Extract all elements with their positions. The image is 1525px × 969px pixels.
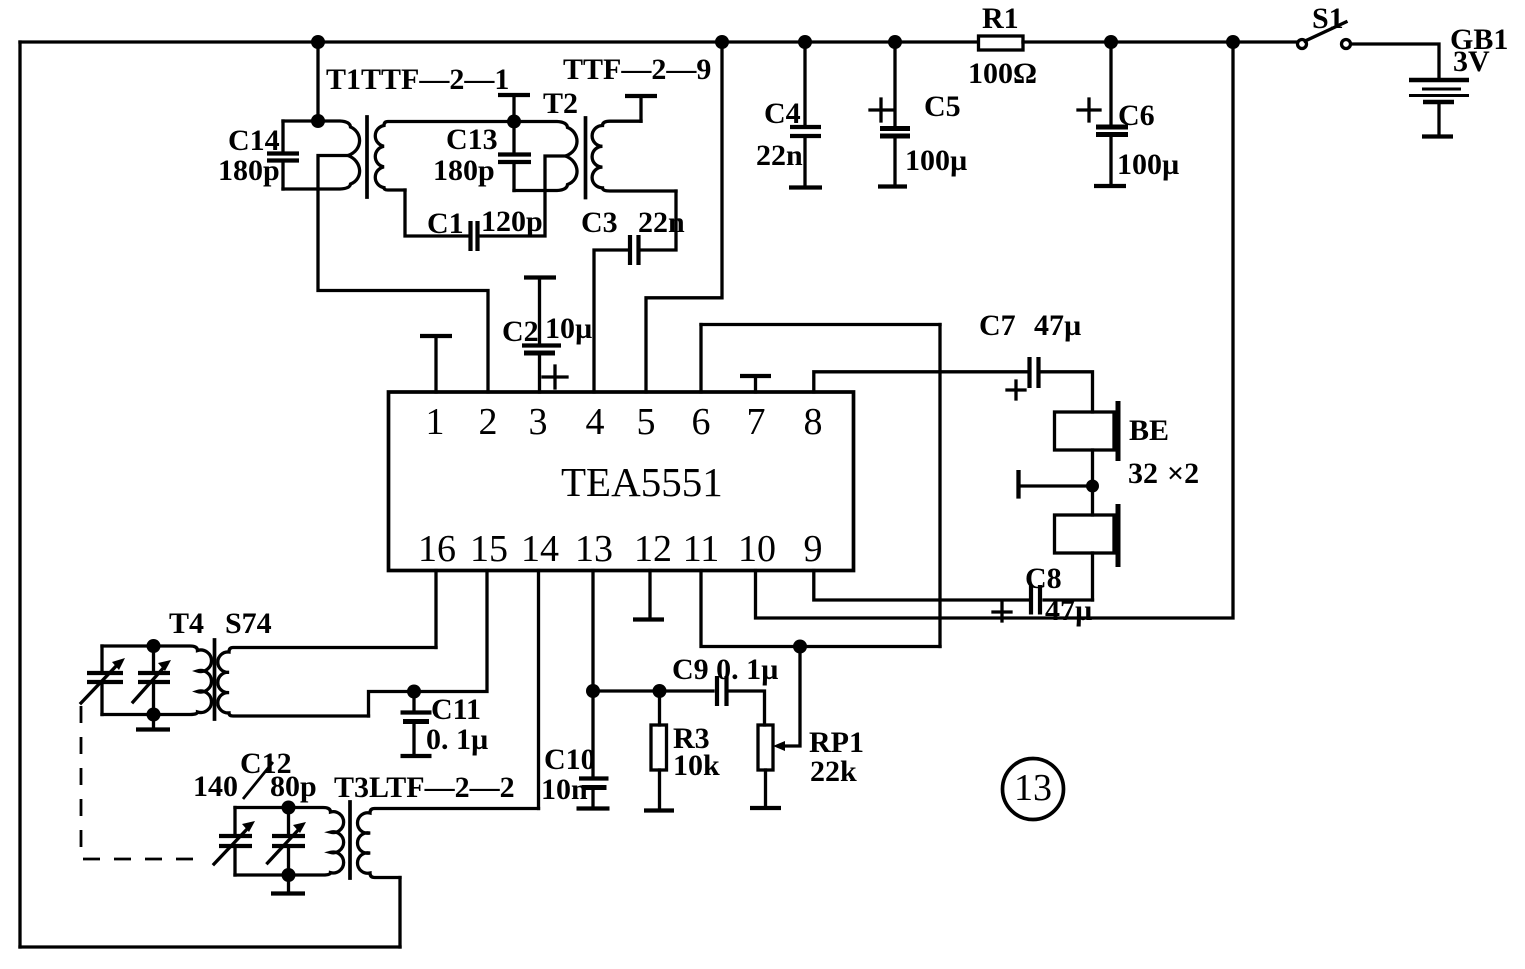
wire C9 right to RP1: [730, 691, 765, 725]
transformer T1 core: [365, 117, 369, 197]
svg-text:4: 4: [586, 401, 605, 443]
wire C9 row: [593, 689, 713, 692]
transformer T2 primary left edge upper: [512, 122, 515, 152]
svg-text:180p: 180p: [433, 154, 495, 187]
TOP RIGHT SECTION: [756, 22, 1470, 618]
capacitor C13 plates: [498, 152, 531, 156]
ground T4: [152, 715, 155, 729]
capacitor C9 plates: [715, 676, 719, 706]
node junction T1 secondary / T2 primary top: [507, 115, 521, 129]
pin 8 wire to C7: [814, 372, 1026, 392]
svg-text:16: 16: [418, 528, 456, 570]
svg-text:T2: T2: [543, 87, 578, 120]
svg-text:C8: C8: [1025, 562, 1062, 595]
wire C7 to earphone: [1042, 372, 1093, 412]
wire C8 right: [1044, 598, 1093, 601]
node junction T4 top: [147, 639, 161, 653]
svg-text:C10: C10: [544, 743, 596, 776]
wire pin14 down to T3: [537, 571, 540, 809]
wire dashed gang link: [81, 706, 207, 859]
node junction rail / C4: [798, 35, 812, 49]
resistor R3: [658, 691, 661, 725]
svg-text:C2: C2: [502, 315, 539, 348]
svg-text:80p: 80p: [270, 770, 317, 803]
wire top supply rail right of R1: [1023, 40, 1297, 43]
svg-text:180p: 180p: [218, 154, 280, 187]
wire top supply rail left segment: [20, 40, 978, 43]
svg-text:C11: C11: [431, 693, 481, 726]
pin 6 to feedback box: [699, 325, 702, 393]
wire rail to pin5: [646, 42, 722, 392]
transformer T4 core: [213, 640, 217, 719]
svg-text:C4: C4: [764, 97, 801, 130]
svg-text:S74: S74: [225, 607, 272, 640]
svg-text:22n: 22n: [756, 139, 803, 172]
svg-text:32: 32: [1128, 457, 1158, 490]
capacitor C14 plates: [267, 151, 299, 155]
transformer T2 primary left edge lower: [512, 165, 515, 191]
svg-text:2: 2: [479, 401, 498, 443]
wire feedback box top: [701, 323, 940, 326]
terminal bar above T1/T2 junction: [512, 95, 515, 122]
svg-text:C5: C5: [924, 90, 961, 123]
capacitor C2 plates: [522, 343, 561, 347]
wire T1 primary tap: [318, 156, 488, 393]
svg-text:9: 9: [804, 528, 823, 570]
svg-text:S1: S1: [1312, 2, 1344, 35]
capacitor C6 electrolytic: [1109, 42, 1112, 124]
svg-text:1: 1: [426, 401, 445, 443]
svg-text:22k: 22k: [810, 755, 857, 788]
IC SECTION: [389, 325, 1119, 811]
svg-text:47µ: 47µ: [1045, 594, 1092, 627]
potentiometer RP1: [758, 725, 773, 770]
wire battery return vertical: [756, 42, 1234, 618]
svg-text:TEA5551: TEA5551: [561, 459, 723, 505]
svg-text:100µ: 100µ: [905, 144, 967, 177]
polarity plus C8: [993, 603, 1011, 621]
svg-text:14: 14: [521, 528, 559, 570]
svg-text:T4: T4: [169, 607, 204, 640]
wire earphone middle tap to terminal: [1019, 484, 1093, 487]
wire feedback box bottom pin 11: [701, 571, 940, 647]
capacitor C5 electrolytic: [893, 42, 896, 125]
node junction C11 top: [407, 685, 421, 699]
svg-text:TTF—2—9: TTF—2—9: [563, 53, 711, 86]
svg-text:11: 11: [683, 528, 720, 570]
svg-text:22n: 22n: [638, 206, 685, 239]
BOTTOM LEFT SECTION: [81, 571, 539, 894]
ground T3: [287, 875, 290, 892]
svg-text:140: 140: [193, 770, 238, 803]
transformer T1 secondary winding: [375, 122, 514, 191]
svg-text:13: 13: [1014, 767, 1052, 809]
node junction T3 top: [282, 801, 296, 815]
wire feedback box right: [938, 325, 941, 647]
capacitor C11: [412, 692, 415, 712]
svg-text:C14: C14: [228, 124, 280, 157]
terminal bar above T2 secondary: [639, 96, 642, 121]
transformer T3 secondary winding and top edge: [357, 809, 538, 878]
svg-text:×2: ×2: [1167, 457, 1199, 490]
svg-text:10k: 10k: [673, 749, 720, 782]
svg-text:8: 8: [804, 401, 823, 443]
transformer T1 primary left edge lower: [281, 164, 284, 189]
node junction rail / C5: [888, 35, 902, 49]
transformer T4 primary winding: [102, 646, 211, 715]
figure number circle 13: [1003, 759, 1064, 820]
svg-text:15: 15: [470, 528, 508, 570]
transformer T4 secondary winding and top edge: [218, 648, 436, 717]
potentiometer RP1 wiper arrow: [779, 647, 800, 746]
svg-text:C1: C1: [427, 207, 464, 240]
svg-text:C6: C6: [1118, 99, 1155, 132]
capacitor C8 plates: [1029, 585, 1033, 615]
svg-text:12: 12: [634, 528, 672, 570]
wire bottom frame horizontal: [20, 945, 400, 948]
pin 1 terminal: [434, 337, 437, 392]
wire pin16 down: [434, 571, 437, 648]
transformer T1 primary winding: [283, 121, 360, 189]
svg-text:0. 1µ: 0. 1µ: [426, 723, 488, 756]
wire C3 left to pin4: [594, 250, 627, 392]
transformer T3 primary winding: [235, 808, 344, 876]
node junction pin13 / C10 / C9: [586, 684, 600, 698]
svg-text:10µ: 10µ: [545, 312, 592, 345]
resistor R1: [979, 36, 1024, 50]
transformer T1 primary left edge upper: [281, 121, 284, 150]
polarity plus C6: [1078, 99, 1100, 121]
transformer T3 core: [348, 802, 352, 878]
node junction T4 bottom: [147, 708, 161, 722]
variable capacitor C12a on T4 left edge: [100, 646, 103, 670]
wire earphone middle: [1091, 450, 1094, 515]
svg-text:3V: 3V: [1453, 45, 1490, 78]
node junction RP1 wiper / pin11 line: [793, 640, 807, 654]
trimmer capacitor T4 middle branch: [152, 646, 155, 670]
svg-text:5: 5: [637, 401, 656, 443]
wire T4 secondary bottom to pin15: [369, 571, 488, 717]
svg-text:13: 13: [575, 528, 613, 570]
node junction rail / pin5 wire: [715, 35, 729, 49]
transformer T2 core: [584, 118, 588, 198]
wire S1 to battery: [1351, 44, 1439, 77]
capacitor C7 plates: [1027, 357, 1031, 388]
svg-text:C7: C7: [979, 309, 1016, 342]
svg-text:10: 10: [738, 528, 776, 570]
svg-text:T3LTF—2—2: T3LTF—2—2: [334, 771, 515, 804]
variable capacitor C12b on T3 left edge: [233, 808, 236, 834]
node junction rail / battery return: [1226, 35, 1240, 49]
node junction T1 primary top: [311, 114, 325, 128]
wire T1 secondary bottom to C1: [405, 190, 467, 236]
svg-text:7: 7: [747, 401, 766, 443]
wire T1 feed from rail: [316, 42, 319, 121]
node junction R3 top: [653, 684, 667, 698]
svg-text:3: 3: [529, 401, 548, 443]
svg-text:100Ω: 100Ω: [968, 57, 1037, 90]
svg-text:T1TTF—2—1: T1TTF—2—1: [326, 63, 509, 96]
svg-text:10n: 10n: [541, 773, 588, 806]
node junction earphone middle: [1086, 480, 1099, 493]
capacitor C4: [803, 42, 806, 124]
svg-text:R1: R1: [982, 2, 1019, 35]
battery GB1: [1409, 78, 1469, 83]
wire C2 to pin3: [538, 355, 541, 392]
op-amp U1 TEA5551 body: [389, 392, 854, 571]
pin 13 wire down: [591, 571, 594, 692]
transformer T2 secondary winding: [592, 121, 676, 191]
wire earphone bottom to C8: [1091, 553, 1094, 600]
polarity plus C2: [543, 366, 567, 388]
capacitor C3 plates: [628, 235, 632, 265]
capacitor C1 plates: [468, 221, 472, 251]
wire bottom right riser to T3 secondary: [398, 878, 401, 948]
svg-text:C13: C13: [446, 123, 498, 156]
svg-text:47µ: 47µ: [1034, 309, 1081, 342]
svg-text:C3: C3: [581, 206, 618, 239]
capacitor C10: [591, 691, 594, 777]
pin 9 wire to C8: [814, 571, 1028, 601]
svg-text:BE: BE: [1129, 414, 1169, 447]
pin 7 terminal: [754, 377, 757, 392]
polarity plus C7: [1007, 381, 1025, 399]
T1 T2 SECTION: [267, 35, 729, 392]
switch S1: [1298, 40, 1307, 49]
capacitor C2 terminal bar: [524, 275, 556, 279]
node junction rail / T1 feed: [311, 35, 325, 49]
polarity plus C5: [870, 99, 892, 121]
svg-text:100µ: 100µ: [1117, 148, 1179, 181]
svg-text:6: 6: [692, 401, 711, 443]
svg-text:120p: 120p: [481, 205, 543, 238]
node junction rail / C6: [1104, 35, 1118, 49]
earphone BE lower: [1055, 515, 1115, 553]
earphone BE upper: [1055, 412, 1115, 450]
WIRES-MAIN: [20, 42, 1297, 947]
wire T2 secondary bottom to C3: [642, 191, 676, 250]
svg-text:C9 0. 1µ: C9 0. 1µ: [672, 653, 778, 686]
trimmer capacitor T3 middle branch: [287, 808, 290, 834]
pin 12 ground: [648, 571, 651, 619]
wire left frame vertical: [18, 42, 21, 947]
transformer T2 primary winding: [514, 122, 577, 191]
node junction T3 bottom: [282, 868, 296, 882]
wire C1 right to T2 tap: [481, 156, 566, 236]
